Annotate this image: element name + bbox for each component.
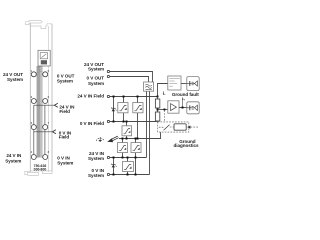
electronic switch B	[122, 126, 132, 136]
contact wire left	[33, 105, 35, 154]
terminal 24V OUT	[107, 70, 109, 72]
diagnostics block	[168, 76, 181, 90]
module top latch profile	[26, 20, 53, 28]
resistor R2	[155, 108, 159, 121]
rail 24V IN System	[110, 157, 147, 159]
LED indicator 1	[187, 77, 199, 91]
comparator amplifier	[168, 101, 179, 113]
lead D bottom	[127, 172, 129, 175]
electronic switch A1	[118, 103, 128, 113]
diagnostics relay	[174, 124, 186, 130]
electronic switch D	[123, 162, 134, 172]
node suppressor system bottom	[113, 174, 115, 176]
lead B bottom	[126, 136, 128, 139]
module right outer edge	[51, 24, 53, 172]
clamp wire 24V IN Field	[34, 104, 55, 106]
node C2 rail4	[135, 157, 137, 159]
lead C1 bottom	[122, 153, 124, 158]
lead D top	[127, 158, 129, 162]
node C1 top	[122, 138, 124, 140]
node B top	[126, 121, 128, 123]
node A2 top	[137, 96, 139, 98]
contact 7	[43, 125, 48, 130]
control arrowhead	[187, 126, 190, 129]
lead A1 top	[123, 97, 125, 103]
node B bottom	[126, 138, 128, 140]
node rail1 R1	[157, 96, 159, 98]
svg-text:Ground fault: Ground fault	[172, 92, 199, 97]
lead A2 top	[137, 97, 139, 103]
contact 2	[31, 99, 36, 104]
svg-text:24 V OUTSystem: 24 V OUTSystem	[84, 62, 104, 72]
measuring arrow Us	[163, 91, 166, 95]
contact 8	[43, 155, 48, 160]
contact 4	[31, 155, 36, 160]
contact 3	[31, 125, 36, 130]
node A1 bottom	[123, 121, 125, 123]
node A2 bottom	[137, 138, 139, 140]
lead C2 top	[135, 139, 137, 143]
lead A1 bottom	[123, 113, 125, 122]
ground rail	[119, 132, 161, 138]
DC/DC input lead 0V	[149, 91, 151, 174]
clamp symbol 24V IN Field	[54, 103, 57, 107]
wire divider to comparator	[158, 109, 168, 111]
contact 6	[43, 99, 48, 104]
electronic switch A2	[133, 103, 143, 113]
wire 0V OUT System	[110, 77, 149, 83]
suppressor wire system	[113, 158, 115, 175]
wire diagnostics to LED1	[181, 83, 187, 85]
TVS diode Z2	[111, 164, 116, 168]
ground diagnostics dashed enclosure	[158, 122, 189, 132]
terminal 0V IN System	[107, 173, 109, 175]
module bottom foot profile	[25, 171, 52, 176]
contact 5	[43, 72, 48, 77]
terminal 0V IN Field	[107, 120, 109, 122]
clamp symbol 0V IN Field	[53, 130, 56, 134]
contact 1	[31, 72, 36, 77]
module inner face line	[47, 26, 49, 172]
node test tap	[164, 109, 166, 111]
electronic switch C2	[131, 143, 141, 153]
resistor R1	[155, 97, 159, 109]
svg-text:24 V INSystem: 24 V INSystem	[5, 153, 22, 163]
module left edge	[29, 23, 31, 172]
rail 24V IN Field	[110, 96, 158, 98]
svg-text:24 V IN Field: 24 V IN Field	[77, 94, 104, 99]
node suppressor system top	[113, 157, 115, 159]
electronic switch C1	[118, 143, 128, 153]
terminal 24V IN System	[107, 156, 109, 158]
lead A2 bottom	[137, 113, 139, 139]
node C2 top	[135, 138, 137, 140]
svg-text:000-800: 000-800	[34, 167, 47, 171]
node R1 R2 junction	[157, 109, 159, 111]
node LED branch	[182, 107, 184, 109]
wire 24V OUT System	[110, 72, 153, 83]
clamp wire 0V IN Field	[34, 131, 53, 133]
indicator box U0	[38, 50, 50, 66]
suppressor wire field	[113, 97, 115, 122]
DC/DC converter	[144, 82, 154, 91]
svg-text:24 V OUTSystem: 24 V OUTSystem	[3, 72, 23, 82]
svg-text:0 V OUTSystem: 0 V OUTSystem	[57, 74, 75, 84]
node suppressor field top	[113, 96, 115, 98]
lead C2 bottom	[135, 153, 137, 175]
contact wire right	[44, 105, 46, 154]
node D top	[127, 157, 129, 159]
module part number	[34, 164, 47, 172]
lead B top	[126, 122, 128, 126]
node C2 bottom	[135, 174, 137, 176]
terminal 24V IN Field	[107, 95, 109, 97]
node suppressor field bottom	[113, 121, 115, 123]
clean earth symbol	[96, 137, 104, 142]
rail 0V IN Field	[110, 121, 158, 123]
node D bottom	[127, 174, 129, 176]
node C1 bottom	[122, 157, 124, 159]
svg-text:0 V OUTSystem: 0 V OUTSystem	[86, 76, 104, 86]
hatch under indicator box	[37, 66, 43, 73]
lead C1 top	[122, 139, 124, 143]
wire ground fault sense	[158, 84, 168, 97]
svg-text:24 V INSystem: 24 V INSystem	[88, 151, 105, 161]
terminal 0V OUT	[107, 75, 109, 77]
svg-text:0 V IN Field: 0 V IN Field	[80, 121, 104, 126]
node A1 top	[123, 96, 125, 98]
measuring arrow fault	[182, 97, 185, 106]
LED indicator 2	[187, 102, 199, 114]
ground fault arrow	[107, 136, 118, 142]
dashed test tap line	[164, 110, 166, 122]
rail 0V IN System	[110, 174, 150, 176]
wire comparator to LED	[179, 107, 187, 109]
TVS diode Z1	[111, 107, 116, 111]
dashed control line	[191, 126, 199, 128]
power jumper contact band	[36, 66, 42, 158]
DC/DC input lead 24V	[146, 91, 148, 157]
test switch	[159, 125, 174, 131]
